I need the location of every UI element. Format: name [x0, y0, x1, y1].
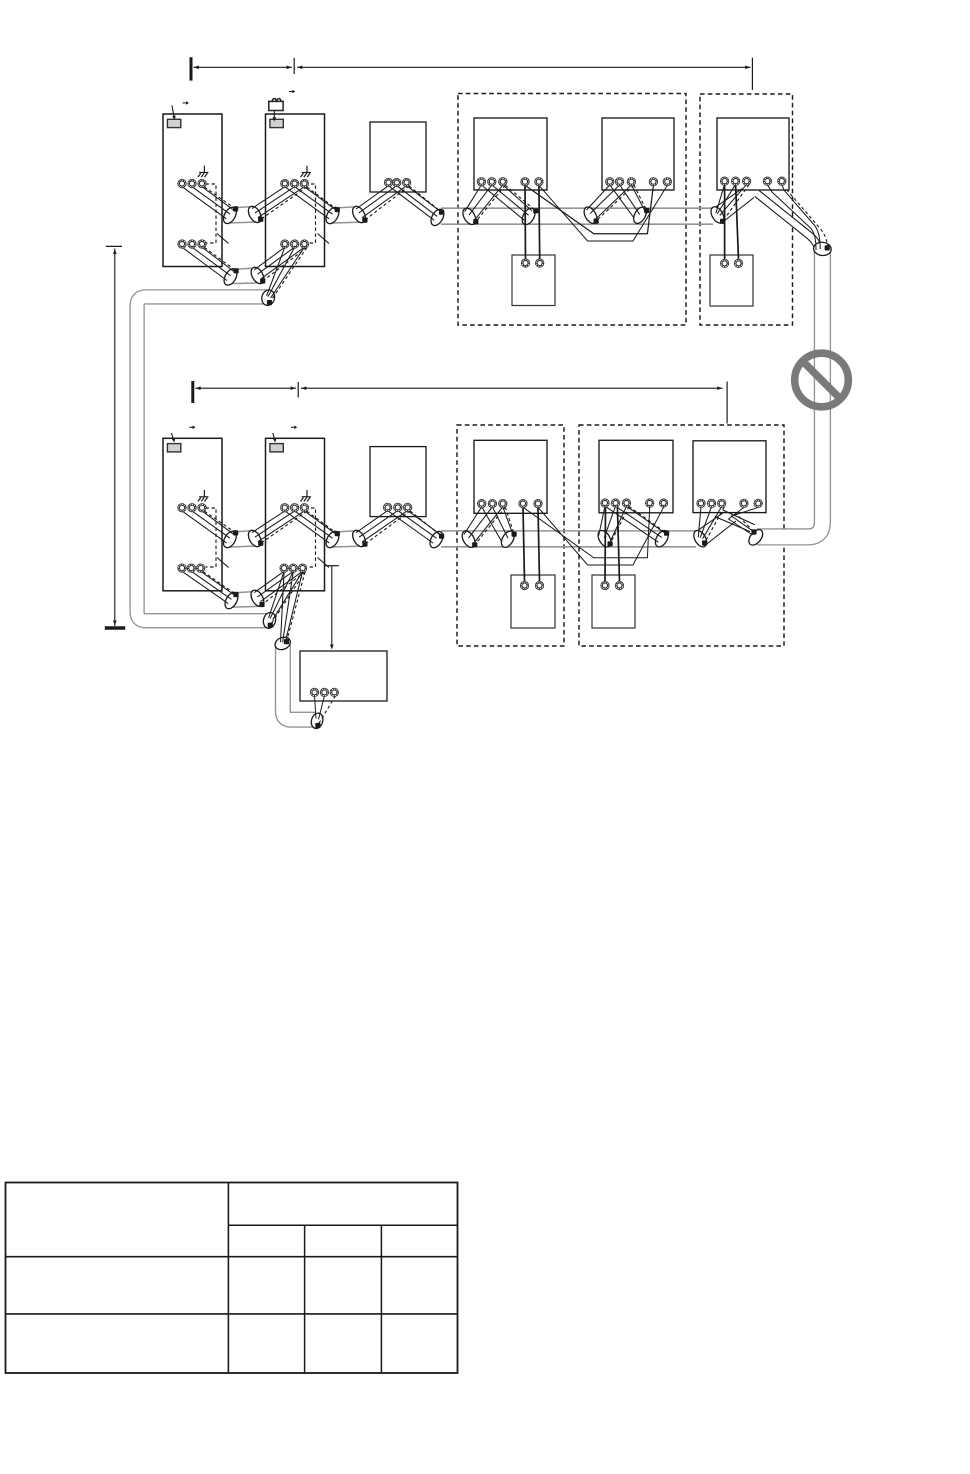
- tiny arrow above power box 1: [183, 102, 187, 104]
- wire bundle box2 row1 to tube right, system 1: wires: [285, 187, 329, 219]
- wire bundle box2 row1 to tube left, system 1: wires: [252, 187, 285, 209]
- central control box, system 2: [300, 651, 387, 701]
- dashed enclosure: indoor unit group 1, system 2: [457, 425, 564, 646]
- indoor unit A, system 2: [474, 440, 547, 513]
- power supply box 2, system 2: [266, 438, 325, 591]
- conduit unit B2 to junction 4, system 2: [715, 517, 750, 532]
- tiny arrow above power box 1, system 2: [189, 426, 193, 428]
- down-tube bottom cap: [310, 712, 325, 730]
- dashed switch bracket: [206, 184, 217, 243]
- power cable tube between supply boxes, system 2 upper: [234, 531, 250, 532]
- main power tube, system 2: [441, 530, 696, 532]
- junction dots: [233, 206, 238, 211]
- dashed switch bracket: [305, 184, 316, 243]
- wire bundle unit C to junction, system 1: wires: [716, 184, 725, 213]
- tiny arrow above plug: [289, 91, 293, 93]
- leader tick: [217, 234, 229, 244]
- conduit unit C to junction, system 1: [712, 189, 742, 210]
- wire bundle unit A to junction b, system 2: wires: [482, 507, 502, 542]
- plug symbol on power box 2: [269, 101, 283, 110]
- wire bundle unit B2 to junction 3, system 2: wires: [698, 507, 701, 538]
- wire bundle unit B1 to junction 1, system 2: wires: [599, 506, 605, 536]
- dashed switch bracket: [206, 508, 217, 567]
- leader tick: [217, 558, 229, 568]
- down-tube top cap: [273, 635, 292, 652]
- ground symbol box 1, system 1: [203, 166, 205, 173]
- ground symbol box 2, system 1: [306, 166, 308, 173]
- power supply box 1, system 2: [163, 438, 222, 591]
- wire bundle unit B1 to junction 2, system 2: wires: [605, 506, 658, 542]
- indoor unit C, system 1: [717, 118, 789, 190]
- indoor unit B2, system 2: [693, 441, 766, 513]
- wire bundle unit B to junction d, system 1: wires: [610, 185, 634, 218]
- conduit unit B2 to junction 3, system 2: [694, 512, 724, 533]
- prohibition sign: [795, 353, 849, 407]
- remote controller wires unit A, system 2: [523, 507, 525, 581]
- power cable tube between supply boxes, system 1 upper: [234, 207, 250, 208]
- wire bundle unit A to junction b, system 1: wires: [481, 185, 524, 220]
- power supply box 2, system 1: [266, 114, 325, 267]
- tiny arrow above power box 2, system 2: [291, 426, 295, 428]
- terminal blocks: [178, 179, 186, 187]
- remote controller wires unit B1, system 2: [604, 507, 607, 582]
- remote controller B1, system 2: [592, 575, 635, 628]
- remote controller wires unit A, system 1: [524, 185, 527, 258]
- leader arrow power box 1: [172, 105, 174, 118]
- wire bundle box2 row2 to down-tube junction, system 2: wires: [281, 571, 285, 642]
- power supply box 1, system 1: [163, 114, 222, 267]
- group control wiring unit A to unit B1, system 2: [523, 507, 650, 558]
- dimension line system 2: [191, 381, 194, 403]
- wires central control box: [315, 696, 317, 719]
- wire bundle box1 row2 to tube, system 2: wires: [182, 571, 228, 603]
- main power tube, system 1: [441, 207, 713, 209]
- remote controller wires unit C, system 1: [724, 185, 726, 260]
- remote controller A, system 1: [512, 255, 555, 306]
- power supply box 3 (outdoor unit), system 1: [370, 122, 426, 192]
- wire bundle unit B to junction c, system 1: wires: [587, 185, 610, 210]
- remote controller terminals: [521, 259, 529, 267]
- dimension line system 1: [190, 57, 193, 80]
- junction 4 cap, system 2: [746, 527, 765, 548]
- wire bundle box3 to tube right, system 2: wires: [388, 511, 433, 543]
- U-tube cap, system 1 end: [260, 289, 276, 307]
- group control wiring unit A to unit B, system 1: [525, 185, 653, 234]
- indoor unit A, system 1: [474, 118, 547, 190]
- dashed switch bracket: [305, 508, 316, 567]
- power cable tube between supply boxes, system 2 lower: [235, 592, 252, 593]
- power cable tube between supply boxes, system 1 lower: [235, 268, 252, 269]
- power supply box 3 (outdoor unit), system 2: [370, 447, 426, 517]
- wire bundle box3 to tube left, system 1: wires: [356, 186, 389, 209]
- vertical tube down to central control box: [283, 645, 315, 720]
- wire bundle box3 to tube left, system 2: wires: [356, 511, 388, 533]
- long U-shaped power tube from system 1 to system 2: [137, 297, 268, 621]
- wires unit C to inter-system tube: [767, 185, 816, 250]
- leader into plug: [273, 111, 275, 120]
- wire bundle unit A to junction a, system 1: wires: [465, 185, 482, 212]
- prohibited inter-system transmission tube: [757, 252, 822, 537]
- wire bundle box3 to tube right, system 1: wires: [389, 186, 435, 221]
- conduit unit C to inter-system tube: [757, 194, 819, 253]
- wire bundle box1 row2 to tube, system 1: wires: [182, 247, 227, 280]
- wire bundle box1 row1 to tube, system 1: wires: [182, 187, 226, 219]
- wire bundle box2 row2 to tube, system 1: wires: [254, 247, 284, 270]
- U-tube cap, system 2 end: [262, 611, 278, 629]
- leader arrow power box 2, system 2: [273, 433, 275, 441]
- dashed enclosure: indoor unit group 2, system 1: [700, 94, 793, 325]
- vertical dimension line left: [106, 245, 122, 247]
- power cable tube box2-box3, system 2: [337, 531, 354, 532]
- power cable tube box2-box3, system 1: [337, 207, 354, 208]
- indoor unit B1, system 2: [599, 440, 673, 513]
- dashed enclosure: indoor units group 1, system 1: [458, 94, 686, 326]
- wire bundle box2 row2 to U-tube junction, system 2: wires: [269, 571, 285, 618]
- wire bundle box2 row1 to tube right, system 2: wires: [285, 511, 329, 543]
- wire bundle box2 row2 to tube, system 2: wires: [254, 571, 284, 592]
- inter-system tube top cap: [813, 241, 832, 256]
- dashed wire unit C to inter-system tube: [787, 190, 828, 248]
- wire bundle unit A to junction a, system 2: wires: [464, 507, 482, 535]
- wire bundle box2 row2 to U-tube junction, system 1: wires: [267, 247, 285, 296]
- ground symbol box 1, system 2: [203, 490, 205, 497]
- dashed enclosure: indoor unit group 2, system 2: [579, 425, 784, 646]
- tube end caps: [221, 205, 239, 226]
- wires unit B2 to junction 4, system 2: [729, 507, 753, 535]
- remote controller A, system 2: [511, 575, 555, 628]
- leader tick: [318, 558, 330, 568]
- leader tick: [318, 234, 330, 244]
- wire bundle box1 row1 to tube, system 2: wires: [182, 511, 227, 543]
- leader to central control box: [325, 565, 339, 567]
- remote controller C, system 1: [710, 255, 753, 306]
- wire bundle box2 row1 to tube left, system 2: wires: [252, 511, 285, 533]
- indoor unit B, system 1: [602, 118, 674, 190]
- leader arrow power box 1, system 2: [171, 433, 173, 441]
- ground symbol box 2, system 2: [306, 490, 308, 497]
- specification table: [6, 1183, 458, 1374]
